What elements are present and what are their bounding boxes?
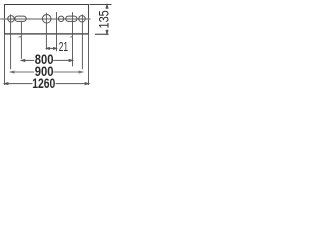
135 dimension arrow up bbox=[106, 5, 108, 9]
fixture plate outline (top view rectangle) bbox=[4, 4, 89, 6]
135 dimension arrow down bbox=[106, 29, 108, 34]
small stub mark under right slot extension bbox=[69, 36, 72, 38]
mounting hole circle right bbox=[79, 16, 86, 23]
right edge extension line down to 1260 dim bbox=[88, 34, 90, 85]
900 dimension line right segment with arrow bbox=[53, 71, 82, 73]
135 bottom extension line bbox=[95, 33, 109, 35]
small stub mark under left slot extension bbox=[18, 36, 22, 38]
center socket circle bbox=[42, 14, 51, 23]
800 dimension line right segment with arrow bbox=[53, 60, 72, 62]
extension line from left slot (800 dim) bbox=[20, 21, 22, 59]
background bbox=[0, 0, 113, 93]
vertical line through center circle (21 dim left extension) bbox=[45, 13, 47, 50]
svg-text:1260: 1260 bbox=[32, 75, 55, 91]
mounting slot right (stadium) bbox=[66, 16, 77, 21]
extension line from left hole (900 dim) bbox=[10, 14, 12, 69]
1260 dimension line left segment with arrow bbox=[5, 83, 33, 85]
1260 dimension line right segment with arrow bbox=[56, 83, 89, 85]
extension line from right hole (900 dim) bbox=[81, 14, 83, 69]
21 dim right extension line bbox=[56, 12, 58, 51]
svg-text:135: 135 bbox=[96, 10, 112, 28]
svg-text:21: 21 bbox=[59, 41, 68, 55]
extension line through right slot (800 dim) bbox=[72, 12, 74, 66]
900 dimension line left segment with arrow bbox=[11, 71, 35, 73]
mounting hole circle left bbox=[8, 16, 15, 23]
800 dimension line left segment with arrow bbox=[21, 60, 34, 62]
21 dimension line with outward arrows bbox=[47, 48, 57, 50]
135 top extension line bbox=[90, 4, 112, 6]
horizontal center line bbox=[0, 18, 90, 20]
mounting slot left (stadium) bbox=[15, 16, 26, 21]
small hole circle right group bbox=[58, 16, 63, 21]
left edge extension line down to 1260 dim bbox=[4, 34, 6, 85]
